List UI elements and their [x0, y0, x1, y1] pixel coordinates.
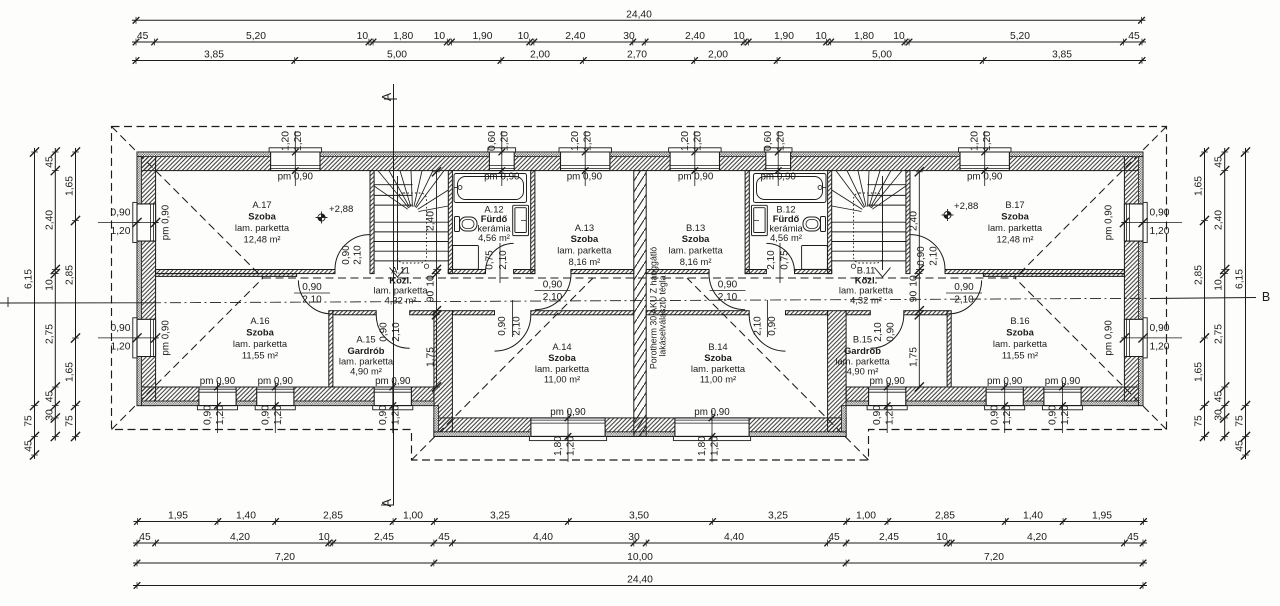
svg-text:pm 0,90: pm 0,90 — [200, 376, 236, 387]
svg-text:10: 10 — [936, 532, 948, 543]
svg-text:pm 0,90: pm 0,90 — [550, 407, 586, 418]
svg-text:2,10: 2,10 — [498, 250, 509, 270]
svg-text:pm 0,90: pm 0,90 — [678, 172, 714, 183]
svg-text:4,90 m²: 4,90 m² — [350, 366, 382, 377]
svg-text:11,55 m²: 11,55 m² — [1002, 350, 1038, 361]
svg-text:75: 75 — [65, 415, 76, 427]
svg-text:2,45: 2,45 — [374, 532, 394, 543]
svg-text:Szoba: Szoba — [1001, 211, 1029, 222]
svg-text:45: 45 — [139, 532, 151, 543]
svg-text:Szoba: Szoba — [571, 233, 599, 244]
svg-text:B.16: B.16 — [1010, 315, 1029, 326]
svg-text:1,20: 1,20 — [499, 131, 510, 151]
svg-text:12,48 m²: 12,48 m² — [997, 234, 1034, 245]
svg-text:pm 0,90: pm 0,90 — [760, 172, 796, 183]
svg-text:2,00: 2,00 — [708, 50, 728, 61]
svg-text:1,80: 1,80 — [393, 31, 413, 42]
svg-text:0,90: 0,90 — [110, 208, 130, 219]
svg-text:B.13: B.13 — [686, 222, 705, 233]
svg-text:pm 0,90: pm 0,90 — [567, 172, 603, 183]
svg-text:1,75: 1,75 — [426, 347, 437, 367]
svg-text:30: 30 — [1214, 409, 1225, 421]
svg-text:Szoba: Szoba — [246, 327, 274, 338]
svg-text:6,15: 6,15 — [24, 269, 35, 289]
svg-text:5,00: 5,00 — [872, 50, 892, 61]
svg-text:30: 30 — [623, 31, 635, 42]
svg-text:0,90: 0,90 — [341, 245, 352, 265]
svg-text:10: 10 — [434, 31, 446, 42]
svg-text:1,20: 1,20 — [390, 405, 401, 425]
svg-text:8,16 m²: 8,16 m² — [569, 256, 601, 267]
svg-text:4,90 m²: 4,90 m² — [847, 366, 879, 377]
svg-text:lam. parketta: lam. parketta — [233, 338, 288, 349]
svg-text:7,20: 7,20 — [275, 552, 295, 563]
svg-text:75: 75 — [1235, 415, 1246, 427]
svg-text:1,20: 1,20 — [1149, 341, 1169, 352]
svg-text:pm 0,90: pm 0,90 — [278, 172, 314, 183]
svg-text:0,90: 0,90 — [954, 282, 974, 293]
svg-text:1,00: 1,00 — [856, 511, 876, 522]
svg-text:0,90: 0,90 — [110, 323, 130, 334]
svg-text:0,90: 0,90 — [203, 405, 214, 425]
svg-text:8,16 m²: 8,16 m² — [680, 256, 712, 267]
svg-text:lakáselválasztó tégla: lakáselválasztó tégla — [658, 275, 668, 356]
svg-text:1,80: 1,80 — [854, 31, 874, 42]
svg-text:1,80: 1,80 — [697, 436, 708, 456]
svg-text:1,40: 1,40 — [236, 511, 256, 522]
svg-text:2,40: 2,40 — [565, 31, 585, 42]
svg-text:45: 45 — [1214, 391, 1225, 403]
svg-text:2,40: 2,40 — [908, 211, 919, 231]
svg-text:2,10: 2,10 — [954, 295, 974, 306]
svg-text:0,90: 0,90 — [543, 280, 563, 291]
svg-text:pm 0,90: pm 0,90 — [967, 172, 1003, 183]
svg-text:45: 45 — [44, 156, 55, 168]
svg-text:2,85: 2,85 — [65, 265, 76, 285]
svg-text:1,40: 1,40 — [1023, 511, 1043, 522]
svg-text:3,25: 3,25 — [490, 511, 510, 522]
svg-text:0,90: 0,90 — [718, 280, 738, 291]
svg-text:+2,88: +2,88 — [954, 201, 978, 212]
svg-text:0,90: 0,90 — [872, 405, 883, 425]
svg-text:1,20: 1,20 — [776, 131, 787, 151]
svg-text:4,32 m²: 4,32 m² — [850, 295, 882, 306]
svg-text:2,40: 2,40 — [426, 211, 437, 231]
svg-text:A: A — [380, 498, 394, 507]
svg-text:Gardrób: Gardrób — [844, 345, 881, 356]
svg-text:2,10: 2,10 — [718, 292, 738, 303]
svg-text:3,25: 3,25 — [768, 511, 788, 522]
svg-text:1,95: 1,95 — [1092, 511, 1112, 522]
svg-text:0,75: 0,75 — [485, 250, 496, 270]
svg-text:Szoba: Szoba — [548, 352, 576, 363]
svg-text:10,00: 10,00 — [627, 552, 653, 563]
svg-text:1,20: 1,20 — [885, 405, 896, 425]
svg-text:0,90: 0,90 — [378, 405, 389, 425]
svg-text:2,10: 2,10 — [543, 292, 563, 303]
svg-text:4,40: 4,40 — [533, 532, 553, 543]
svg-text:10: 10 — [893, 31, 905, 42]
svg-text:4,40: 4,40 — [724, 532, 744, 543]
svg-text:4,56 m²: 4,56 m² — [478, 232, 510, 243]
svg-text:3,50: 3,50 — [629, 511, 649, 522]
svg-text:1,00: 1,00 — [403, 511, 423, 522]
svg-text:lam. parketta: lam. parketta — [557, 245, 612, 256]
svg-text:45: 45 — [137, 31, 149, 42]
svg-text:0,90: 0,90 — [886, 322, 897, 342]
svg-text:30: 30 — [628, 532, 640, 543]
svg-text:lam. parketta: lam. parketta — [691, 363, 746, 374]
svg-text:1,20: 1,20 — [1060, 405, 1071, 425]
svg-text:2,70: 2,70 — [627, 50, 647, 61]
svg-text:0,60: 0,60 — [763, 131, 774, 151]
svg-text:4,20: 4,20 — [1027, 532, 1047, 543]
svg-text:2,10: 2,10 — [766, 250, 777, 270]
svg-text:11,00 m²: 11,00 m² — [544, 374, 580, 385]
svg-text:A.14: A.14 — [552, 341, 571, 352]
svg-text:0,90: 0,90 — [302, 282, 322, 293]
svg-text:2,75: 2,75 — [1214, 324, 1225, 344]
svg-text:2,40: 2,40 — [1214, 210, 1225, 230]
svg-text:24,40: 24,40 — [626, 9, 652, 20]
svg-text:pm 0,90: pm 0,90 — [694, 407, 730, 418]
svg-text:3,85: 3,85 — [1052, 50, 1072, 61]
svg-text:pm 0,90: pm 0,90 — [869, 376, 905, 387]
svg-text:A.15: A.15 — [356, 334, 375, 345]
svg-text:2,10: 2,10 — [929, 246, 940, 266]
svg-text:lam. parketta: lam. parketta — [988, 222, 1043, 233]
svg-text:B.14: B.14 — [708, 341, 727, 352]
svg-text:2,85: 2,85 — [935, 511, 955, 522]
svg-text:1,80: 1,80 — [553, 436, 564, 456]
svg-text:pm 0,90: pm 0,90 — [161, 204, 172, 240]
svg-text:lam. parketta: lam. parketta — [993, 338, 1048, 349]
svg-text:2,45: 2,45 — [879, 532, 899, 543]
svg-text:45: 45 — [1235, 440, 1246, 452]
svg-text:1,20: 1,20 — [110, 226, 130, 237]
svg-text:2,40: 2,40 — [44, 210, 55, 230]
svg-text:10: 10 — [815, 31, 827, 42]
svg-text:45: 45 — [24, 440, 35, 452]
svg-text:pm 0,90: pm 0,90 — [258, 376, 294, 387]
svg-text:Szoba: Szoba — [704, 352, 732, 363]
svg-text:45: 45 — [1214, 156, 1225, 168]
svg-text:1,20: 1,20 — [1002, 405, 1013, 425]
svg-text:2,10: 2,10 — [873, 322, 884, 342]
svg-text:B.15: B.15 — [853, 334, 872, 345]
svg-text:75: 75 — [24, 415, 35, 427]
svg-text:4,32 m²: 4,32 m² — [385, 295, 417, 306]
svg-text:2,10: 2,10 — [391, 322, 402, 342]
svg-text:5,20: 5,20 — [246, 31, 266, 42]
svg-text:1,20: 1,20 — [280, 131, 291, 151]
svg-text:2,10: 2,10 — [512, 316, 523, 336]
svg-text:1,75: 1,75 — [908, 347, 919, 367]
svg-text:6,15: 6,15 — [1235, 269, 1246, 289]
svg-text:2,10: 2,10 — [302, 295, 322, 306]
svg-text:0,90: 0,90 — [260, 405, 271, 425]
svg-text:24,40: 24,40 — [627, 575, 653, 586]
svg-text:2,10: 2,10 — [753, 316, 764, 336]
svg-text:Szoba: Szoba — [682, 233, 710, 244]
svg-text:10: 10 — [357, 31, 369, 42]
svg-text:pm 0,90: pm 0,90 — [1104, 320, 1115, 356]
svg-text:4,20: 4,20 — [230, 532, 250, 543]
svg-text:0,90: 0,90 — [916, 246, 927, 266]
svg-text:10: 10 — [44, 279, 55, 291]
svg-text:pm 0,90: pm 0,90 — [484, 172, 520, 183]
svg-text:0,90: 0,90 — [990, 405, 1001, 425]
svg-text:1,90: 1,90 — [774, 31, 794, 42]
svg-text:1,65: 1,65 — [1194, 362, 1205, 382]
svg-text:Gardrób: Gardrób — [348, 345, 385, 356]
svg-text:2,10: 2,10 — [353, 245, 364, 265]
svg-text:45: 45 — [438, 532, 450, 543]
svg-text:1,20: 1,20 — [570, 131, 581, 151]
svg-text:1,90: 1,90 — [472, 31, 492, 42]
svg-text:lam. parketta: lam. parketta — [535, 363, 590, 374]
svg-text:12,48 m²: 12,48 m² — [244, 234, 281, 245]
svg-text:0,90: 0,90 — [767, 316, 778, 336]
svg-text:lam. parketta: lam. parketta — [668, 245, 723, 256]
svg-text:45: 45 — [1127, 532, 1139, 543]
svg-text:5,00: 5,00 — [387, 50, 407, 61]
svg-text:A: A — [380, 92, 394, 101]
svg-text:1,20: 1,20 — [692, 131, 703, 151]
svg-text:pm 0,90: pm 0,90 — [161, 320, 172, 356]
svg-text:pm 0,90: pm 0,90 — [375, 376, 411, 387]
svg-text:45: 45 — [828, 532, 840, 543]
svg-text:1,20: 1,20 — [273, 405, 284, 425]
svg-text:7,20: 7,20 — [984, 552, 1004, 563]
svg-text:0,90: 0,90 — [1149, 323, 1169, 334]
svg-text:1,20: 1,20 — [680, 131, 691, 151]
svg-text:3,85: 3,85 — [204, 50, 224, 61]
svg-text:2,75: 2,75 — [44, 324, 55, 344]
svg-text:Szoba: Szoba — [1006, 327, 1034, 338]
svg-text:10: 10 — [908, 275, 919, 287]
svg-text:30: 30 — [44, 409, 55, 421]
svg-text:10: 10 — [518, 31, 530, 42]
svg-text:A.13: A.13 — [575, 222, 594, 233]
svg-text:1,20: 1,20 — [566, 436, 577, 456]
svg-text:0,90: 0,90 — [379, 322, 390, 342]
svg-text:2,85: 2,85 — [1194, 265, 1205, 285]
svg-text:1,20: 1,20 — [1149, 226, 1169, 237]
svg-text:11,00 m²: 11,00 m² — [700, 374, 736, 385]
svg-text:lam. parketta: lam. parketta — [235, 222, 290, 233]
svg-text:0,90: 0,90 — [497, 316, 508, 336]
svg-text:B: B — [1262, 290, 1270, 304]
svg-text:1,20: 1,20 — [970, 131, 981, 151]
svg-text:1,20: 1,20 — [982, 131, 993, 151]
svg-text:1,65: 1,65 — [65, 176, 76, 196]
svg-text:10: 10 — [1214, 279, 1225, 291]
svg-text:0,90: 0,90 — [1048, 405, 1059, 425]
svg-text:45: 45 — [1128, 31, 1140, 42]
svg-text:Szoba: Szoba — [248, 211, 276, 222]
svg-text:1,65: 1,65 — [65, 362, 76, 382]
svg-text:1,20: 1,20 — [215, 405, 226, 425]
svg-text:0,90: 0,90 — [1149, 208, 1169, 219]
svg-text:5,20: 5,20 — [1010, 31, 1030, 42]
svg-text:0,75: 0,75 — [780, 250, 791, 270]
svg-text:A.17: A.17 — [252, 199, 271, 210]
svg-text:1,20: 1,20 — [710, 436, 721, 456]
svg-text:10: 10 — [733, 31, 745, 42]
svg-text:2,85: 2,85 — [323, 511, 343, 522]
svg-text:10: 10 — [318, 532, 330, 543]
svg-text:2,00: 2,00 — [530, 50, 550, 61]
svg-text:45: 45 — [44, 391, 55, 403]
svg-text:pm 0,90: pm 0,90 — [987, 376, 1023, 387]
svg-text:B.17: B.17 — [1005, 199, 1024, 210]
svg-text:90: 90 — [908, 291, 919, 303]
svg-text:11,55 m²: 11,55 m² — [242, 350, 278, 361]
svg-text:2,40: 2,40 — [685, 31, 705, 42]
svg-text:4,56 m²: 4,56 m² — [770, 232, 802, 243]
svg-text:1,65: 1,65 — [1194, 176, 1205, 196]
svg-text:pm 0,90: pm 0,90 — [1045, 376, 1081, 387]
svg-text:pm 0,90: pm 0,90 — [1104, 204, 1115, 240]
svg-text:1,20: 1,20 — [583, 131, 594, 151]
svg-text:1,20: 1,20 — [293, 131, 304, 151]
svg-text:+2,88: +2,88 — [329, 204, 353, 215]
svg-text:75: 75 — [1194, 415, 1205, 427]
svg-text:1,95: 1,95 — [168, 511, 188, 522]
svg-text:A.16: A.16 — [250, 315, 269, 326]
svg-text:0,60: 0,60 — [487, 131, 498, 151]
svg-text:1,20: 1,20 — [110, 341, 130, 352]
